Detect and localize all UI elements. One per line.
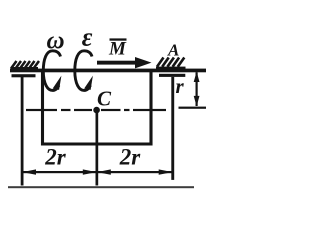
horizontal centerline through C (dash-dot) [26, 107, 206, 112]
left bearing post / left dimension extension line [21, 77, 24, 186]
right support hatching [157, 58, 184, 67]
right bearing jaw [159, 74, 185, 77]
right support baseline [156, 67, 186, 71]
dimension r (vertical, right side) [196, 72, 198, 106]
frame (rectangular plate outline) [43, 71, 152, 145]
svg-text:A: A [167, 40, 179, 59]
frame middle vertical rod / middle dimension extension line [96, 108, 99, 186]
left support baseline [11, 67, 39, 70]
left support hatching [11, 61, 39, 69]
curved arrow omega (rotation arrow 1) [43, 51, 60, 91]
center point C dot [93, 107, 100, 114]
arrowhead right (2r) [159, 169, 173, 174]
bottom rule line [8, 186, 194, 188]
arrowhead left (2r) [22, 169, 36, 174]
left bearing jaw [12, 74, 36, 77]
bottom dimension line [22, 171, 173, 173]
svg-text:2r: 2r [119, 145, 142, 170]
svg-text:C: C [97, 86, 112, 110]
svg-text:M: M [108, 39, 127, 60]
axle AB (main horizontal axis line) [10, 69, 206, 73]
right bearing post / right dimension extension line [171, 77, 174, 180]
arrowheads at middle [83, 169, 97, 174]
curved arrow epsilon (rotation arrow 2) [75, 51, 92, 91]
svg-text:r: r [176, 74, 185, 98]
svg-text:ε: ε [82, 22, 93, 51]
moment arrow M [97, 61, 137, 65]
svg-text:ω: ω [47, 28, 65, 55]
svg-text:2r: 2r [44, 145, 67, 170]
